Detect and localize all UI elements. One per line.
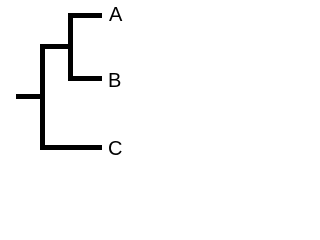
node label B <box>108 71 121 91</box>
wire: inner node AB vertical connector <box>68 13 73 81</box>
node label A <box>109 5 122 25</box>
wire: root stem <box>16 94 45 99</box>
wire: branch to taxon B <box>68 76 102 81</box>
node label C <box>108 139 122 159</box>
wire: root vertical connector <box>40 44 45 150</box>
wire: branch to taxon C <box>40 145 102 150</box>
wire: branch from root node to inner node AB <box>40 44 73 49</box>
wire: branch to taxon A <box>68 13 102 18</box>
